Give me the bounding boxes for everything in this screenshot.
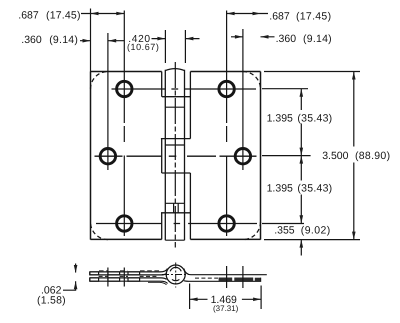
side view: pin circle broken arcs (170, 267, 181, 271)
side view right leaf countersink band 1 (219, 278, 233, 282)
corner radius dashed arc top-right (243, 72, 261, 90)
svg-text:(35.43): (35.43) (297, 112, 332, 124)
corner radius dashed arc bottom-right (243, 222, 261, 240)
svg-text:(9.14): (9.14) (49, 34, 78, 46)
side view left leaf hidden top dashes (99, 270, 159, 272)
side view right hole axis x=226.6 (226, 266, 228, 288)
svg-text:(35.43): (35.43) (297, 183, 332, 195)
svg-text:(37.31): (37.31) (213, 304, 239, 313)
side view right leaf countersink band 3 (255, 278, 260, 281)
side view left leaf bar2 (90, 278, 168, 284)
side view right leaf hidden dashes (195, 277, 218, 279)
hole column centerline x=226.6 (226, 11, 228, 237)
dimension line 3.500 (353, 72, 355, 240)
screw hole row1 left (117, 81, 132, 96)
corner radius dashed arc top-left (91, 72, 108, 89)
svg-text:(9.02): (9.02) (301, 225, 331, 237)
side view right leaf bottom surface (184, 278, 261, 282)
barrel swage line below J2 (165, 144, 184, 146)
side view left leaf bar1 (90, 269, 168, 275)
hinge pin centerline (plan) (174, 62, 176, 248)
barrel joint J1 (162, 96, 191, 98)
row1 hole centerline (112, 88, 257, 90)
svg-text:.360: .360 (21, 34, 42, 46)
dimension .420 arrows (152, 38, 200, 40)
svg-text:.687: .687 (18, 10, 39, 22)
screw hole row2 right (235, 149, 250, 164)
barrel narrow knuckle edges full height (165, 70, 184, 240)
barrel joint J3 (161, 212, 190, 214)
side view right leaf top surface (184, 269, 267, 275)
side view right leaf countersink band 2 (234, 278, 253, 282)
hole column centerline x=108 (107, 33, 109, 170)
side view: pin centerlines (175, 263, 177, 288)
side view left leaf hole box 2 (108, 272, 120, 275)
dimension line .687 right (227, 13, 268, 15)
side view left leaf lower flare line (148, 282, 167, 285)
svg-text:.360: .360 (276, 33, 297, 45)
dimension .360 right arrows (231, 36, 275, 38)
side view left leaf hidden dashes (99, 275, 158, 277)
extension line plate bottom right (264, 239, 360, 241)
extension line plate top right (264, 71, 360, 73)
side view left hole axis x=124 (123, 268, 125, 287)
side view left leaf hole box 3 (128, 272, 140, 275)
barrel knuckle K5 bottom cap (165, 239, 184, 241)
dimension .062 leader (63, 264, 76, 291)
svg-text:(88.90): (88.90) (355, 150, 390, 162)
side view left hole axis x=108 (107, 268, 109, 287)
dimension 1.469 extension lines (190, 284, 262, 310)
barrel knuckle K1 top cap (165, 69, 184, 71)
svg-text:(10.67): (10.67) (127, 42, 159, 52)
hole column centerline x=124 (123, 11, 125, 237)
dimension .355 bottom arrow (300, 240, 302, 256)
svg-text:.355: .355 (274, 225, 295, 237)
row3 hole centerline (96, 223, 304, 225)
row2 hole centerline (95, 155, 257, 157)
screw hole row1 right (219, 81, 234, 96)
barrel joint J2 (161, 138, 191, 140)
screw hole row3 right (219, 216, 234, 231)
side view right hole axis x=242.9 (242, 266, 244, 288)
svg-text:1.395: 1.395 (267, 112, 293, 124)
svg-text:(1.58): (1.58) (37, 295, 66, 307)
extension line plate left edge top (90, 9, 92, 72)
screw hole row2 left (100, 149, 115, 164)
hole column centerline x=242.9 (242, 29, 244, 170)
extension line row2 right (262, 155, 311, 157)
svg-text:(17.45): (17.45) (296, 11, 331, 23)
side view: barrel circle (166, 265, 185, 284)
extension line row1 right (262, 88, 308, 90)
svg-text:(9.14): (9.14) (303, 33, 332, 45)
barrel swage line above J3 (165, 203, 184, 213)
side view left leaf hole box 1 (90, 272, 99, 275)
svg-text:(17.45): (17.45) (46, 10, 81, 22)
extension lines .420 (165, 30, 185, 63)
screw hole row3 left (117, 216, 132, 231)
dimension line .687 left (81, 13, 124, 15)
svg-text:1.395: 1.395 (267, 183, 293, 195)
svg-text:3.500: 3.500 (322, 150, 348, 162)
barrel curl edge left segments (161, 72, 163, 240)
svg-text:.687: .687 (269, 11, 290, 23)
dimension .360 left arrows (80, 40, 124, 42)
corner radius dashed arc bottom-left (91, 222, 108, 240)
barrel curl edge right segments (189, 72, 191, 240)
dimension line 1.395 pair (300, 89, 302, 224)
barrel joint mid (162, 172, 191, 174)
dimension 1.469 line (190, 298, 262, 300)
hinge plate outline (plan view) (91, 72, 261, 240)
barrel swage line below J1 (165, 106, 184, 108)
